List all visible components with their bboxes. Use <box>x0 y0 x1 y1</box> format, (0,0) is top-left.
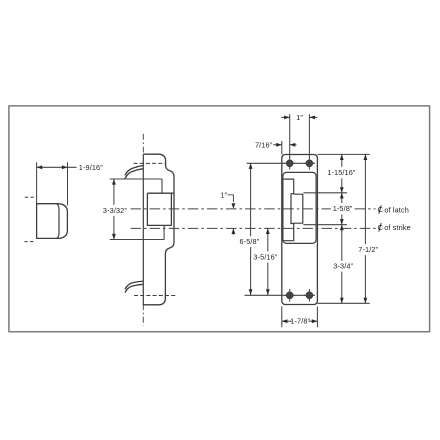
svg-text:1-9/16”: 1-9/16” <box>79 163 103 172</box>
latch bolt face line <box>57 204 59 239</box>
latch faceplate edge <box>142 154 144 305</box>
screw hole bottom right <box>304 289 315 302</box>
drawing border frame <box>9 106 430 332</box>
svg-text:3-3/32”: 3-3/32” <box>103 206 127 215</box>
svg-text:7-1/2”: 7-1/2” <box>358 245 378 254</box>
svg-text:3-5/16”: 3-5/16” <box>253 253 277 262</box>
dimension 1-9/16 extension line left <box>36 162 38 204</box>
hidden screw centerline lower across case <box>134 295 176 297</box>
strike opening center recess <box>294 194 303 223</box>
strike dust box inner outline <box>283 172 316 243</box>
dimension 7/16 line and arrows <box>273 144 282 146</box>
dimension 7/16 extension line <box>281 141 283 155</box>
latch tab edge bottom <box>163 225 165 239</box>
extension line opening top right <box>303 192 347 194</box>
break squiggle upper pair <box>125 166 143 176</box>
screw hole bottom left <box>284 289 295 302</box>
dimension 1-7/8 line arrows label <box>282 320 292 322</box>
latch faceplate centerline below <box>142 304 144 326</box>
extension line opening bottom right <box>303 224 347 226</box>
svg-text:1”: 1” <box>220 190 227 199</box>
latch faceplate centerline above <box>142 134 144 156</box>
latch bolt plan view outline <box>37 204 68 239</box>
dashed stub upper left of bolt <box>25 196 35 198</box>
svg-text:1-15/16”: 1-15/16” <box>327 168 356 177</box>
dimension 6-5/8 line arrows label <box>250 163 252 236</box>
latch case outline <box>143 154 174 305</box>
hidden screw centerline upper across case <box>134 162 166 164</box>
dimension 1 inch between centerlines leader <box>228 195 234 202</box>
dimension 1-9/16 extension line right <box>67 162 69 205</box>
svg-text:1-5/8”: 1-5/8” <box>333 204 353 213</box>
bottom screw holes centerline <box>245 294 315 296</box>
break squiggle lower pair <box>125 281 143 289</box>
dimension 3-5/16 line arrows label <box>267 228 269 251</box>
dimension 1-9/16 line with arrows <box>37 166 77 168</box>
dimension 3-3/32 line with arrows <box>113 179 115 205</box>
dimension 1-15/16 line arrows label <box>341 154 343 166</box>
dimension 7-1/2 line arrows label <box>364 154 366 244</box>
strike latch opening outline <box>283 179 294 241</box>
top screw holes centerline <box>247 162 315 164</box>
screw hole top right <box>304 157 315 170</box>
centerline of strike dash-dot <box>131 227 376 229</box>
svg-text:6-5/8”: 6-5/8” <box>240 237 260 246</box>
centerline of latch dash-dot <box>131 208 331 210</box>
screw hole top left <box>284 157 295 170</box>
dimension 1-5/8 arrows label <box>341 193 343 203</box>
dimension 3-3/32 extension line bottom <box>110 239 164 241</box>
strike plate outline <box>282 155 318 305</box>
extension line plate top right <box>317 153 369 155</box>
extension line plate bottom right <box>317 302 369 304</box>
dimension 3-3/4 line arrows label <box>341 225 343 261</box>
svg-text:of latch: of latch <box>384 205 409 214</box>
latch tab edge top <box>161 179 163 193</box>
dimension 1 inch top line and arrows <box>281 116 290 118</box>
svg-text:1”: 1” <box>296 113 303 122</box>
svg-text:of strike: of strike <box>384 223 411 232</box>
svg-text:3-3/4”: 3-3/4” <box>333 262 353 271</box>
dimension 3-3/32 extension line top <box>110 178 162 180</box>
dimension 1-7/8 extension lines <box>281 306 283 327</box>
dimension 1 inch top extension lines <box>289 114 291 158</box>
dashed stub lower left of bolt <box>24 241 34 243</box>
svg-text:1-7/8”: 1-7/8” <box>290 317 310 326</box>
latch bolt rectangle side view <box>147 193 173 225</box>
svg-text:7/16”: 7/16” <box>255 140 273 149</box>
